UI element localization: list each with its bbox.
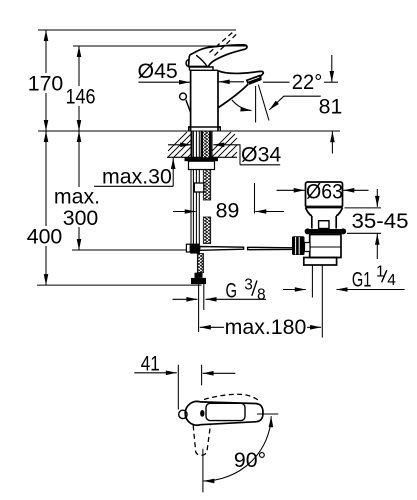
svg-text:89: 89 xyxy=(216,199,240,223)
pull knob (plan) xyxy=(179,410,187,418)
drain flange Ø63 xyxy=(306,182,343,208)
pop-up rod clevis xyxy=(186,244,190,252)
ball joint socket xyxy=(305,243,311,252)
90° swivel arc xyxy=(203,416,271,481)
dimension 146 xyxy=(66,46,96,131)
mounting washer xyxy=(185,157,219,161)
ref line top of raised lever (170) xyxy=(38,29,236,31)
svg-text:300: 300 xyxy=(63,206,99,230)
svg-text:Ø63: Ø63 xyxy=(306,180,343,204)
label max.30 xyxy=(94,158,173,189)
braided hose lower xyxy=(203,217,210,244)
dimension 81 xyxy=(319,55,343,154)
sleeve clip on hose xyxy=(194,183,204,192)
label Ø63 xyxy=(277,180,369,204)
dimension 35-45 xyxy=(345,189,409,259)
angle arc with arrow xyxy=(232,100,252,111)
svg-text:170: 170 xyxy=(28,72,64,96)
retaining clip xyxy=(319,221,329,229)
label 22° with leader xyxy=(263,70,338,110)
deck top reference line xyxy=(38,130,340,132)
deck cross-section hatching left xyxy=(167,131,237,157)
pop-up pull knob xyxy=(180,93,187,100)
dimension 170 xyxy=(28,30,64,131)
G3/8 nut xyxy=(191,278,206,284)
dimension 400 xyxy=(27,131,63,285)
smooth supply hose xyxy=(195,132,197,254)
o-ring seal xyxy=(307,229,345,234)
svg-text:Ø45: Ø45 xyxy=(138,59,178,83)
faucet base plate xyxy=(189,127,221,131)
drain tailpipe xyxy=(311,265,313,298)
rotated handle (dashed, up) xyxy=(204,394,260,402)
ref line top of lowered lever (146) xyxy=(73,45,247,47)
lever grip (plan) xyxy=(206,403,245,420)
dimension max.180 xyxy=(200,315,321,339)
water stream vertical reference xyxy=(255,86,257,123)
hose end block xyxy=(195,273,203,278)
handle outline (plan) xyxy=(185,401,263,425)
water stream 22 degree line xyxy=(258,85,269,121)
rotated handle (dashed, down) xyxy=(193,424,210,455)
svg-text:146: 146 xyxy=(66,85,96,109)
pivot dot xyxy=(200,410,204,417)
horizontal pop-up linkage rod left xyxy=(200,247,244,251)
svg-text:90°: 90° xyxy=(234,448,266,472)
faucet body xyxy=(191,70,218,131)
ref line hose end (400) xyxy=(37,284,202,286)
drain bottom rim xyxy=(304,258,337,266)
lever handle with dome xyxy=(189,45,247,67)
svg-text:35-45: 35-45 xyxy=(352,209,409,233)
mounting nut xyxy=(189,161,215,169)
pivot axis line xyxy=(257,413,278,415)
dimension 89 xyxy=(173,183,284,223)
svg-text:Ø34: Ø34 xyxy=(241,143,281,167)
svg-text:4: 4 xyxy=(387,272,396,289)
svg-text:3: 3 xyxy=(244,277,253,294)
svg-text:8: 8 xyxy=(257,287,266,304)
dimension max.300 xyxy=(54,131,100,250)
drain neck xyxy=(312,216,336,229)
braided hose upper xyxy=(203,170,210,201)
svg-text:max.30: max.30 xyxy=(102,165,172,189)
hose lower tube (textured) xyxy=(197,254,203,273)
svg-text:81: 81 xyxy=(319,95,343,119)
lever knob (knurled) xyxy=(292,236,305,255)
ref line hose reach (max.300) xyxy=(72,249,187,251)
hose thread tail xyxy=(198,284,200,332)
raised lever (dashed) xyxy=(210,32,234,53)
svg-text:max.180: max.180 xyxy=(225,315,307,339)
spout xyxy=(218,71,264,108)
label G1 1/4 xyxy=(283,263,405,291)
drain body xyxy=(310,235,341,258)
dimension 41 xyxy=(134,352,235,410)
svg-text:41: 41 xyxy=(141,352,160,376)
horizontal pop-up linkage rod right xyxy=(248,247,293,249)
label G3/8 xyxy=(173,277,267,304)
svg-text:G: G xyxy=(226,279,238,303)
label Ø45 xyxy=(138,59,245,83)
svg-text:max.: max. xyxy=(54,185,100,209)
aerator at spout tip xyxy=(247,76,261,83)
dome inner contour xyxy=(196,55,207,66)
svg-text:22°: 22° xyxy=(292,70,323,94)
mounting shank in deck xyxy=(201,132,212,170)
cartridge collar xyxy=(190,67,219,70)
label Ø34 with leader xyxy=(168,143,281,167)
drain taper xyxy=(306,208,343,217)
small tab on dome xyxy=(186,60,189,67)
pull rod below deck xyxy=(190,132,192,248)
centerline below pivot xyxy=(202,449,204,493)
pull rod upper xyxy=(186,100,191,113)
svg-text:400: 400 xyxy=(27,225,63,249)
svg-text:G1: G1 xyxy=(352,268,372,292)
